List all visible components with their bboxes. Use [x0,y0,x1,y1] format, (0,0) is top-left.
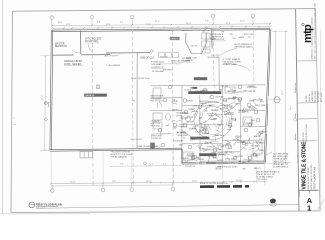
svg-text:MICRO: MICRO [216,168,223,170]
svg-text:1/2" GYP: 1/2" GYP [187,121,195,123]
svg-text:GYP BD: GYP BD [187,101,194,103]
svg-text:4'-2": 4'-2" [163,163,167,165]
svg-text:3'-0": 3'-0" [215,110,219,112]
svg-text:8'-4": 8'-4" [97,22,101,24]
svg-text:SOLID SURF: SOLID SURF [225,158,235,160]
svg-text:REF: REF [213,119,216,121]
svg-text:U.N.O.: U.N.O. [192,139,198,141]
svg-text:SHWR: SHWR [209,116,215,118]
svg-text:CARPET: CARPET [190,87,197,90]
svg-text:architecture . engineering . p: architecture . engineering . planning . … [311,17,314,59]
svg-text:GARAGE FINISH: GARAGE FINISH [64,60,82,63]
svg-text:3'-0": 3'-0" [259,139,263,141]
svg-text:MICRO: MICRO [210,39,217,41]
svg-text:SOLID SURF: SOLID SURF [178,135,188,137]
svg-text:2668: 2668 [241,142,245,144]
svg-text:NOT FOR: NOT FOR [303,132,305,142]
svg-text:REF: REF [196,157,199,159]
svg-text:31'-2": 31'-2" [155,21,160,23]
svg-text:36" VANITY: 36" VANITY [177,131,187,134]
svg-text:SHWR: SHWR [203,90,209,92]
svg-text:16'-2": 16'-2" [192,181,198,183]
svg-text:24'-0": 24'-0" [42,95,44,100]
svg-text:REF: REF [242,162,245,164]
svg-text:LAV: LAV [173,126,177,129]
svg-text:Sheet Title: Sheet Title [297,152,300,163]
svg-text:28'-6": 28'-6" [290,105,292,110]
svg-text:36'-0": 36'-0" [58,22,63,24]
svg-text:REF: REF [221,147,224,149]
svg-text:12'-6": 12'-6" [66,24,71,26]
svg-text:BEDROOM: BEDROOM [55,46,67,48]
svg-text:HDR 2-2X10: HDR 2-2X10 [253,99,263,101]
svg-text:GYP BD: GYP BD [176,115,183,117]
svg-text:SHWR: SHWR [239,37,245,39]
svg-text:SINK DW: SINK DW [160,57,168,59]
svg-text:04-118: 04-118 [306,95,308,102]
svg-text:BASE CAB W/ DRWRS: BASE CAB W/ DRWRS [171,60,191,63]
svg-text:FIRST FLOOR PLAN: FIRST FLOOR PLAN [314,167,317,190]
svg-text:DW: DW [230,34,233,36]
svg-text:LAV: LAV [199,117,203,120]
svg-text:HDR 2-2X10: HDR 2-2X10 [199,101,209,103]
svg-text:1/2" GYP: 1/2" GYP [238,112,246,114]
svg-text:Drawn: Drawn [294,133,297,140]
svg-text:DW SPACE: DW SPACE [163,68,173,71]
svg-text:U.N.O.: U.N.O. [239,92,245,94]
svg-text:2668: 2668 [195,126,199,128]
svg-text:SOLID SURF: SOLID SURF [173,140,183,142]
svg-text:LINE OF SOFFIT: LINE OF SOFFIT [104,56,119,58]
svg-text:GARAGE: GARAGE [85,94,95,97]
svg-text:W.I.C.: W.I.C. [251,120,256,122]
svg-text:ATTIC ACCESS: ATTIC ACCESS [85,38,102,41]
svg-text:16'-8": 16'-8" [70,182,76,184]
svg-text:6'-2": 6'-2" [120,21,124,23]
svg-text:PTD GYP: PTD GYP [221,86,229,88]
svg-text:HDR 2-2X10: HDR 2-2X10 [206,163,216,165]
svg-text:CONC. SEALED: CONC. SEALED [64,63,81,66]
svg-text:2'-6": 2'-6" [183,138,187,140]
svg-text:CARPET: CARPET [208,104,215,107]
svg-text:no: no [13,118,15,120]
svg-text:2X4 STUD: 2X4 STUD [235,156,244,158]
svg-text:MICRO: MICRO [235,104,241,106]
svg-text:DINING: DINING [170,39,178,41]
svg-text:REF: REF [219,89,222,91]
svg-text:12'-8": 12'-8" [226,23,231,25]
svg-text:DW: DW [233,38,236,40]
svg-text:TYP AT GARAGE: TYP AT GARAGE [111,156,128,159]
svg-text:16070 OH DR: 16070 OH DR [131,139,143,141]
svg-text:300 n main ave suite 100 sioux: 300 n main ave suite 100 sioux falls sd … [314,2,317,59]
svg-text:MTP 2004: MTP 2004 [321,92,323,102]
svg-text:3068: 3068 [193,105,197,107]
svg-text:6'-2": 6'-2" [199,163,203,165]
svg-text:SHWR: SHWR [249,86,255,88]
svg-text:CARPET: CARPET [217,123,224,126]
svg-text:VINGE TILE & STONE: VINGE TILE & STONE [302,141,308,190]
svg-text:LINEN: LINEN [237,99,243,101]
svg-text:6'-2": 6'-2" [231,152,235,154]
svg-text:HDR 2-2X10: HDR 2-2X10 [244,34,254,36]
svg-text:9'-6": 9'-6" [112,181,116,183]
svg-text:POCKET DR: POCKET DR [246,91,257,93]
svg-text:DISP SW AT: DISP SW AT [151,63,162,66]
svg-text:22'-4": 22'-4" [240,20,245,22]
svg-text:AREA OF FUTURE EXPANSION: AREA OF FUTURE EXPANSION [200,182,228,185]
svg-text:36" VANITY: 36" VANITY [251,145,261,148]
svg-text:36" HIGH BAR: 36" HIGH BAR [152,70,165,73]
svg-text:4'x4': 4'x4' [132,100,136,102]
svg-text:REF: REF [228,130,231,132]
svg-text:CLG 9'-0": CLG 9'-0" [195,131,203,133]
svg-text:POCKET DR: POCKET DR [218,145,229,147]
svg-text:NOOK: NOOK [191,46,198,48]
svg-text:MASTER: MASTER [55,43,65,46]
svg-text:CARPET: CARPET [227,90,234,93]
svg-text:6'-0": 6'-0" [120,164,124,166]
svg-text:EXTERIOR WALLS: EXTERIOR WALLS [235,45,254,48]
svg-text:2668: 2668 [203,137,207,139]
svg-text:14'-2": 14'-2" [282,90,284,95]
svg-text:MICRO: MICRO [217,160,223,162]
svg-text:Sheet No.: Sheet No. [298,188,301,197]
svg-text:SOLID SURF: SOLID SURF [255,105,265,107]
svg-text:TYP U.N.O.: TYP U.N.O. [257,179,268,181]
svg-text:MICRO: MICRO [220,154,226,156]
svg-text:2201 W. 41ST STREET: 2201 W. 41ST STREET [308,166,310,190]
svg-text:13'-4": 13'-4" [106,24,111,26]
svg-text:14'-0": 14'-0" [186,23,191,25]
svg-text:2'-6": 2'-6" [192,159,196,161]
svg-text:TILE FLR: TILE FLR [202,133,210,135]
svg-text:W/ MFR SPECS: W/ MFR SPECS [273,166,289,168]
svg-text:3'-0": 3'-0" [204,125,208,127]
svg-text:CLG 9'-0": CLG 9'-0" [184,89,192,91]
svg-text:2 CAR GARAGE: 2 CAR GARAGE [106,64,121,67]
svg-text:POCKET DR: POCKET DR [151,138,162,140]
svg-text:CONSTRUCTION: CONSTRUCTION [306,124,308,142]
svg-text:2X4 STUD: 2X4 STUD [215,97,224,99]
svg-text:SEE DTL: SEE DTL [172,109,179,111]
svg-text:MICRO: MICRO [199,159,205,161]
svg-text:11'-2": 11'-2" [146,24,151,26]
svg-text:DW: DW [233,97,236,99]
svg-text:5050 SH: 5050 SH [191,111,198,113]
svg-text:LINEN: LINEN [259,150,265,152]
svg-text:R-19 INSUL: R-19 INSUL [222,105,231,107]
svg-text:LINE OF SOFFIT ABV: LINE OF SOFFIT ABV [138,145,159,148]
svg-text:3'-0": 3'-0" [248,36,252,38]
svg-text:GRAVEL BASE: GRAVEL BASE [223,63,238,66]
svg-text:TYP: TYP [221,31,225,33]
svg-text:3'-0": 3'-0" [245,145,249,147]
svg-text:U.N.O.: U.N.O. [203,149,209,151]
svg-text:Project No.: Project No. [294,82,297,93]
svg-text:REVISIONS: REVISIONS [315,90,317,102]
svg-text:PTD GYP: PTD GYP [211,55,220,57]
svg-text:CLG 9'-0": CLG 9'-0" [188,109,196,111]
svg-text:PTD GYP CLG: PTD GYP CLG [151,101,164,103]
svg-text:rev: rev [14,124,17,126]
svg-text:2X4 STUD: 2X4 STUD [207,146,216,148]
svg-text:REF: REF [209,142,212,144]
svg-text:10-22-04: 10-22-04 [309,93,311,102]
svg-text:2668: 2668 [179,145,183,147]
svg-text:MICRO: MICRO [203,129,209,131]
svg-text:SEE DTL: SEE DTL [227,112,234,114]
svg-text:U.N.O.: U.N.O. [211,156,217,158]
svg-text:3068: 3068 [204,143,208,145]
svg-text:2X4 STUD: 2X4 STUD [245,123,254,125]
svg-text:POCKET DR: POCKET DR [185,166,196,168]
svg-text:SEE DTL: SEE DTL [181,127,188,129]
svg-text:MOP SINK: MOP SINK [151,126,161,128]
svg-text:9'-6": 9'-6" [150,164,154,166]
svg-text:SEE DTL: SEE DTL [254,168,262,170]
svg-text:AS NOTED: AS NOTED [317,91,320,102]
svg-text:Date: Date [294,113,297,118]
svg-text:2X4 STUD: 2X4 STUD [227,99,236,101]
svg-text:FAMILY ROOM 12x16: FAMILY ROOM 12x16 [131,77,150,80]
svg-text:JMW CHKD: JMW CHKD [312,90,314,102]
svg-text:9'-0": 9'-0" [205,21,209,23]
svg-text:DW: DW [242,168,245,170]
svg-text:LINE OF CLG: LINE OF CLG [140,58,155,60]
svg-text:SOLID SURF: SOLID SURF [226,166,238,168]
